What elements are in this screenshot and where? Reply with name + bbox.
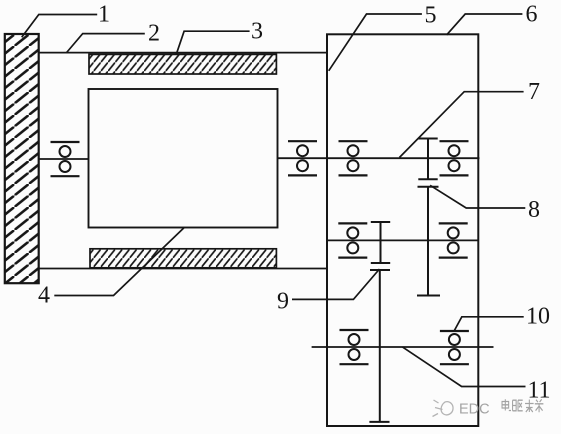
gear G2 on middle shaft (meshes with G1): [417, 187, 440, 296]
output shaft: [312, 346, 494, 348]
middle shaft: [327, 239, 479, 241]
leader 8: [430, 185, 525, 208]
motor housing box: [89, 89, 278, 228]
svg-text:6: 6: [526, 1, 538, 27]
wall mount 1 (hatched): [5, 34, 39, 283]
leader 3: [176, 31, 250, 55]
svg-text:2: 2: [148, 21, 160, 47]
bearing F: [340, 330, 369, 364]
bearing D: [338, 223, 367, 257]
leader 4: [54, 228, 184, 296]
svg-text:11: 11: [527, 378, 550, 404]
bearing C: [339, 141, 368, 175]
leader 11: [402, 347, 525, 387]
stator bar 4 (hatched): [90, 249, 276, 268]
gear G3 on middle shaft: [371, 222, 390, 263]
leader 2: [66, 34, 145, 53]
leader 10: [454, 317, 524, 331]
rotor shaft: [278, 157, 480, 159]
bearing H: [440, 141, 469, 175]
svg-text:8: 8: [528, 197, 540, 223]
bearing G: [440, 331, 469, 364]
bearing B: [288, 141, 317, 175]
leader 1: [22, 15, 98, 38]
gear G1 on rotor shaft: [418, 139, 437, 180]
svg-text:1: 1: [98, 2, 110, 28]
wire bottom frame line: [39, 268, 327, 270]
leader 9: [292, 269, 380, 299]
svg-text:9: 9: [277, 288, 289, 314]
svg-text:EDC: EDC: [459, 402, 490, 418]
stator bar 3 (hatched): [89, 54, 276, 74]
bearing A: [51, 142, 80, 176]
watermark logo icon: [433, 400, 454, 417]
leader 6: [447, 14, 523, 35]
svg-text:3: 3: [251, 18, 263, 44]
leader 7: [399, 92, 523, 158]
watermark text CJK: [502, 399, 543, 412]
svg-text:10: 10: [526, 304, 550, 330]
svg-text:4: 4: [38, 283, 50, 309]
gear G4 on output shaft (meshes with G3): [369, 270, 390, 422]
bearing E: [439, 223, 468, 257]
svg-text:7: 7: [528, 79, 540, 105]
wire top frame line: [39, 52, 327, 54]
svg-text:5: 5: [425, 3, 437, 29]
leader 5: [329, 14, 422, 71]
gearbox housing box 6: [327, 34, 478, 426]
input shaft segment: [39, 158, 89, 160]
